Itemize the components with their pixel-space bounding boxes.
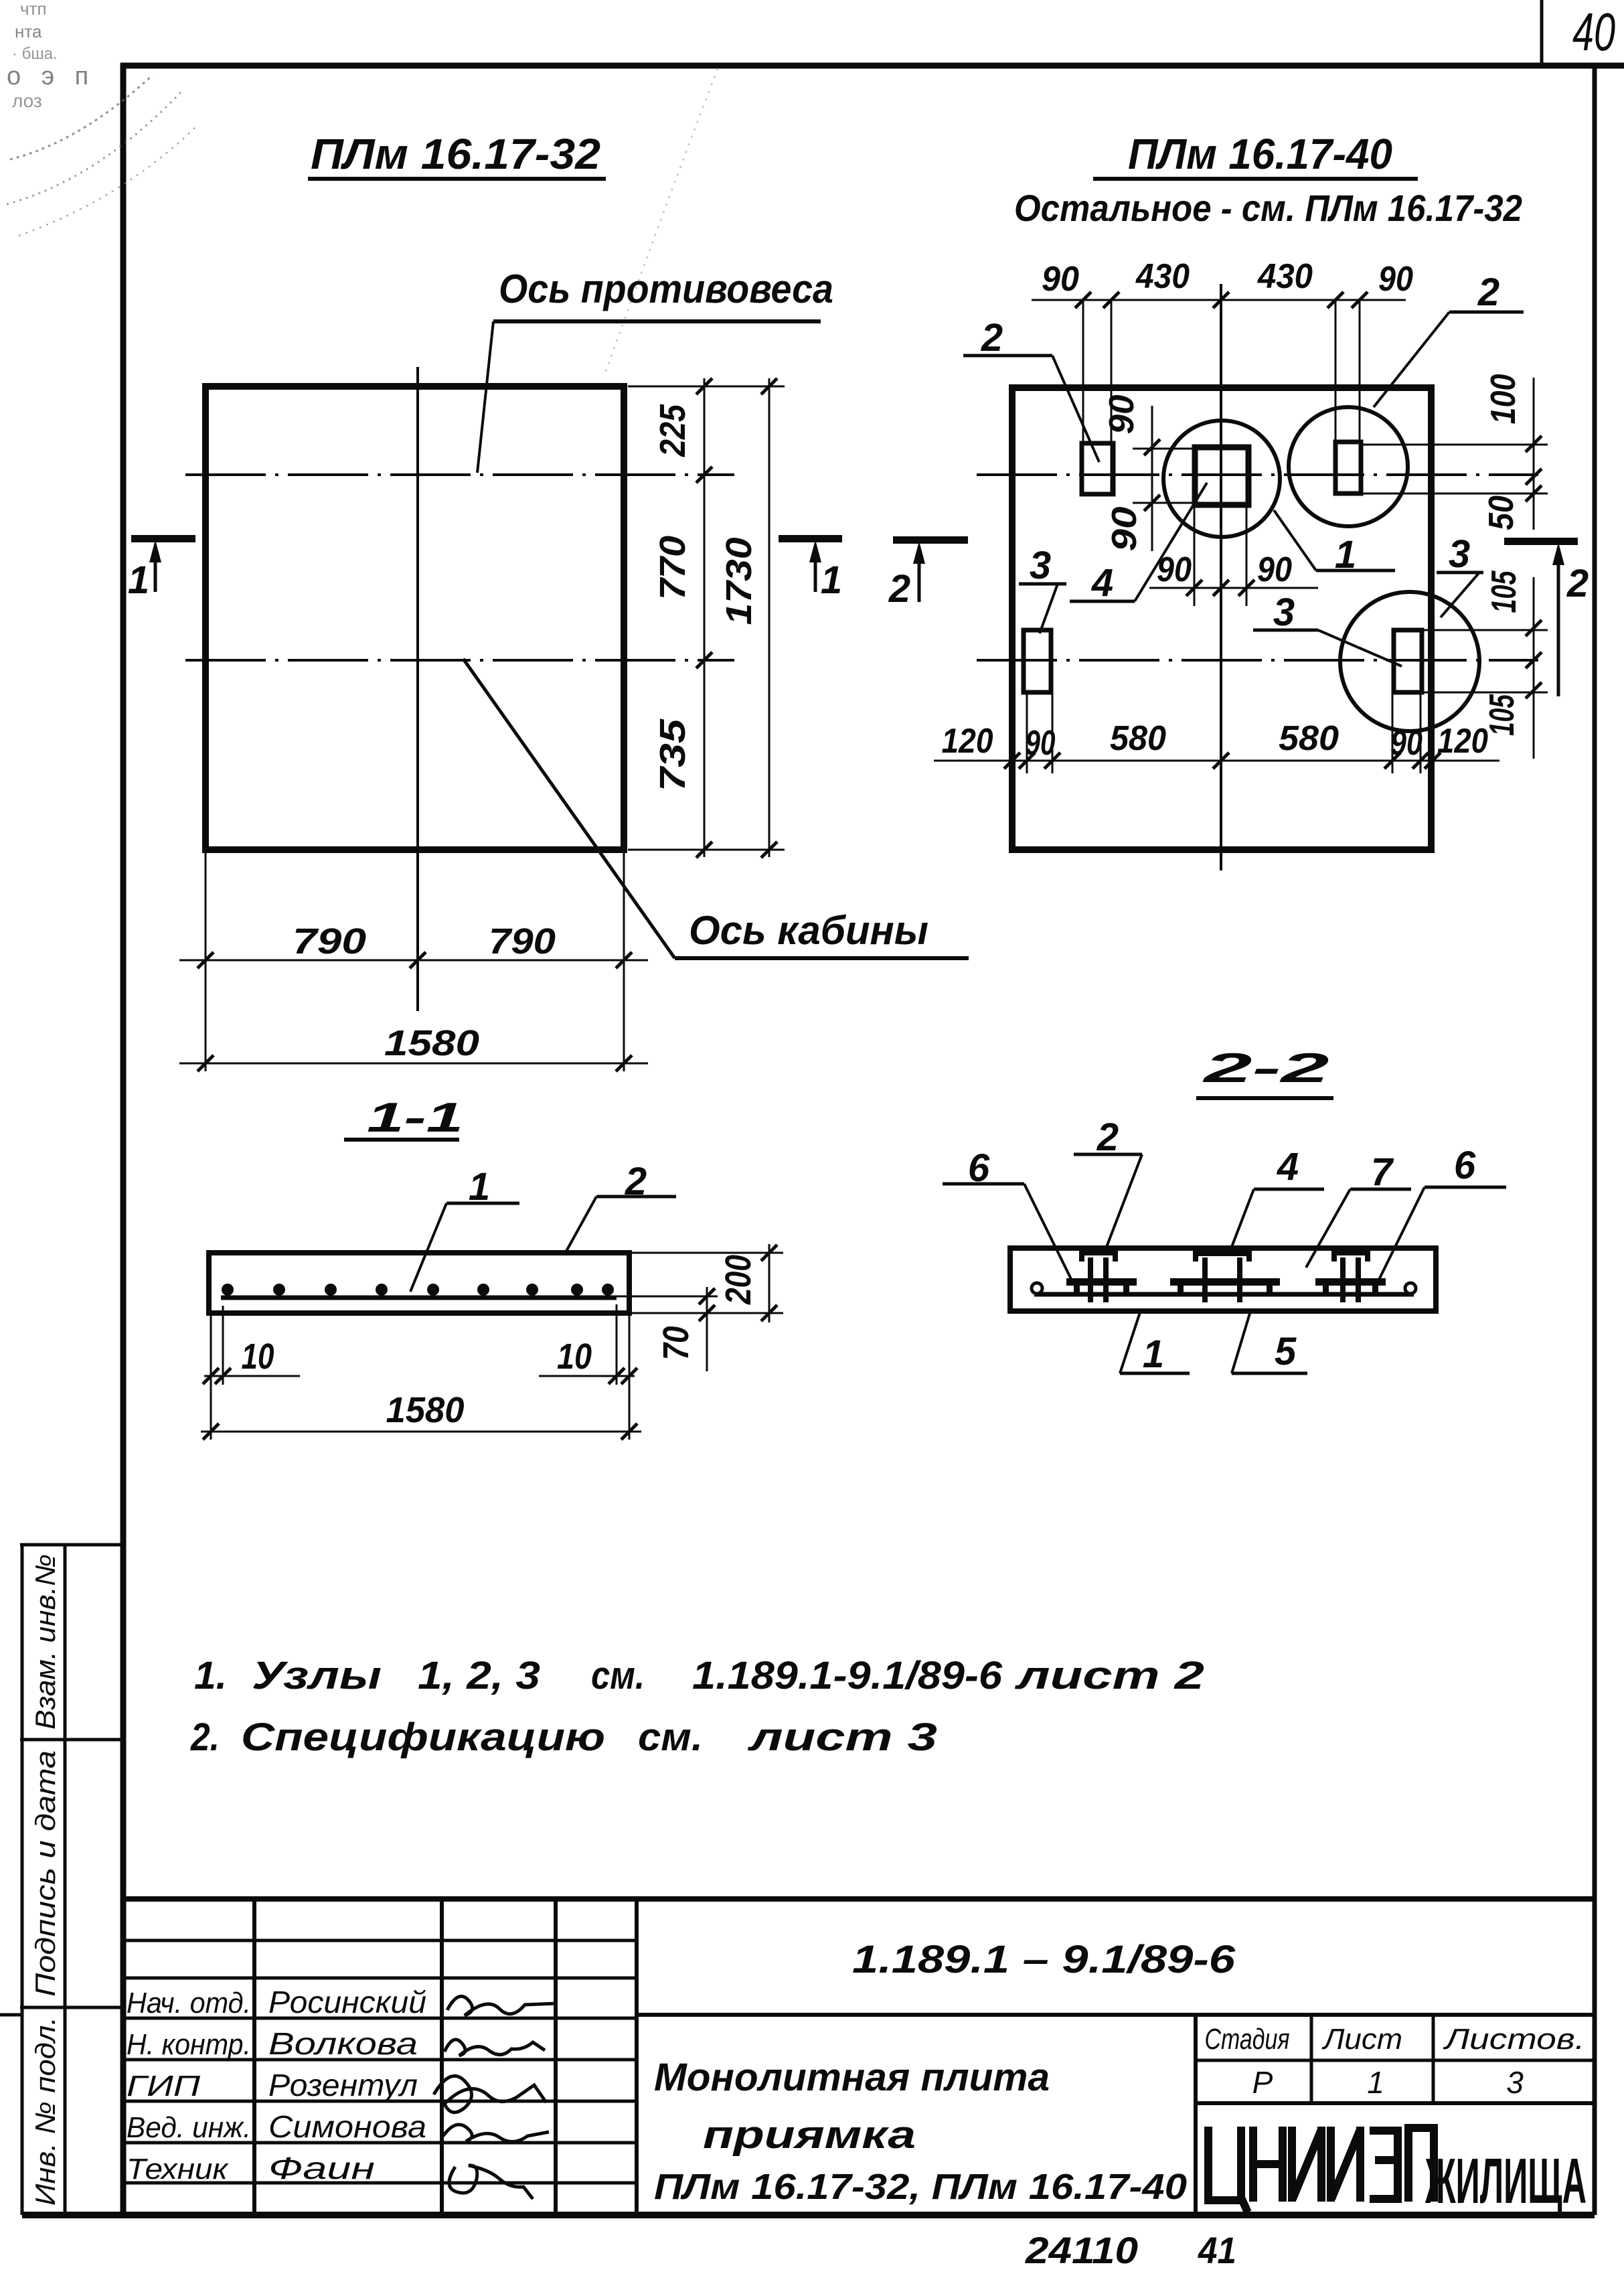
line between Стадия and Лист [1310, 2015, 1313, 2103]
sheet frame bottom border [22, 2212, 1595, 2218]
row line 1 [120, 1939, 637, 1942]
stamp arc 1 [10, 75, 153, 159]
svg-text:225: 225 [653, 404, 693, 457]
svg-text:о э п: о э п [7, 62, 95, 90]
section mark 1 left bar [131, 535, 195, 542]
row line 4 [120, 2058, 637, 2062]
svg-text:Ось противовеса: Ось противовеса [499, 266, 833, 311]
dim line 10 right [539, 1375, 635, 1377]
svg-text:120: 120 [942, 722, 993, 761]
svg-text:ПЛм 16.17-32: ПЛм 16.17-32 [311, 130, 600, 178]
row line 7 [120, 2182, 637, 2185]
signature Росинский [447, 1996, 557, 2015]
ticks 1580 [203, 1424, 219, 1440]
dim line 200 [768, 1244, 770, 1322]
svg-text:4: 4 [1091, 561, 1113, 605]
ticks 70 [699, 1288, 715, 1304]
svg-text:3: 3 [1506, 2065, 1524, 2100]
svg-text:90: 90 [1103, 394, 1141, 434]
svg-text:2: 2 [981, 316, 1003, 360]
svg-text:2: 2 [888, 567, 910, 611]
bottom mesh line [221, 1296, 617, 1300]
tick marks bottom dims [197, 952, 214, 968]
cabin axis line [185, 659, 734, 662]
stage column divider [1194, 2015, 1198, 2215]
svg-text:580: 580 [1110, 719, 1166, 758]
ticks 200 [761, 1245, 777, 1261]
label underline [493, 319, 821, 323]
doc number cell bottom [637, 2013, 1595, 2017]
extension line bottom right [623, 850, 625, 1071]
leader to cabin axis [463, 659, 675, 958]
margin strip section line 2 [20, 2006, 123, 2009]
bottom mesh bar [1034, 1292, 1414, 1297]
section mark 2 right arrow [1557, 553, 1560, 696]
title underline [1093, 177, 1418, 181]
leader to counterweight axis [477, 321, 493, 473]
upper axis line [977, 473, 1538, 476]
svg-text:790: 790 [293, 921, 366, 962]
svg-text:Узлы: Узлы [252, 1654, 382, 1697]
sheet frame left border [120, 63, 127, 2215]
svg-text:лист 3: лист 3 [747, 1715, 937, 1759]
margin strip left border [21, 1545, 24, 2215]
margin strip section line 1 [20, 1738, 123, 1742]
column line dates [554, 1899, 558, 2215]
svg-text:· бша.: · бша. [12, 45, 58, 63]
svg-text:24110: 24110 [1025, 2229, 1138, 2271]
svg-text:Лист: Лист [1321, 2023, 1402, 2056]
svg-text:Фаин: Фаин [268, 2151, 375, 2186]
fold mark line [0, 2013, 22, 2017]
bottom dimension line [934, 760, 1499, 762]
extension line bottom right [628, 849, 785, 851]
svg-text:5: 5 [1275, 1330, 1297, 1373]
svg-text:ЖИЛИЩА: ЖИЛИЩА [1425, 2145, 1587, 2217]
svg-text:см.: см. [591, 1654, 645, 1697]
svg-text:Ось кабины: Ось кабины [689, 908, 928, 953]
title block top border [120, 1896, 1595, 1902]
svg-text:2.: 2. [190, 1715, 220, 1759]
svg-text:200: 200 [718, 1255, 758, 1305]
square bottom extension [1133, 502, 1196, 504]
slab plan outline ПЛм 16.17-40 [1012, 388, 1431, 850]
svg-text:41: 41 [1198, 2229, 1236, 2271]
svg-text:735: 735 [653, 718, 693, 791]
title underline [308, 177, 606, 181]
below-square dimension line [1149, 587, 1318, 589]
section mark 1 left arrow [154, 550, 157, 592]
lower plate center [1170, 1278, 1280, 1292]
extension line top right [628, 386, 785, 388]
svg-text:1-1: 1-1 [367, 1095, 463, 1141]
ticks 10 right [608, 1368, 625, 1384]
svg-text:770: 770 [653, 536, 693, 600]
embedded item 2 top-left [1082, 443, 1113, 494]
svg-text:10: 10 [557, 1336, 592, 1377]
anchor studs left [1088, 1257, 1093, 1302]
ticks bottom dim [1004, 753, 1020, 769]
svg-text:см.: см. [638, 1715, 703, 1759]
svg-text:2: 2 [1477, 271, 1499, 314]
lower plate left [1066, 1278, 1137, 1292]
svg-text:1, 2, 3: 1, 2, 3 [418, 1654, 540, 1697]
dimension line 1580 [179, 1063, 648, 1065]
svg-text:1.189.1-9.1/89-6: 1.189.1-9.1/89-6 [692, 1654, 1003, 1697]
signature Волкова [444, 2040, 545, 2056]
column line names [252, 1899, 256, 2215]
svg-text:10: 10 [242, 1336, 274, 1377]
svg-text:120: 120 [1437, 722, 1488, 761]
mesh hook right [1405, 1283, 1416, 1294]
svg-text:100: 100 [1484, 374, 1523, 424]
dimension line 1730 [768, 378, 770, 857]
ticks 10 left [203, 1368, 219, 1384]
svg-text:Подпись и дата: Подпись и дата [29, 1750, 61, 1997]
embedded item 3 bottom-left [1024, 630, 1051, 692]
embedded item 1 square [1195, 447, 1248, 505]
plan center line [416, 367, 419, 1011]
svg-text:50: 50 [1482, 495, 1521, 530]
svg-text:Инв. № подл.: Инв. № подл. [29, 2017, 61, 2206]
ticks right dim [1526, 436, 1542, 452]
svg-text:Волкова: Волкова [268, 2026, 418, 2061]
svg-text:лоз: лоз [12, 90, 42, 111]
margin strip divider [64, 1545, 67, 2215]
right dim line upper [1533, 378, 1535, 530]
dim line 70 [706, 1287, 708, 1371]
svg-text:Р: Р [1252, 2065, 1273, 2100]
svg-text:1: 1 [1367, 2065, 1384, 2100]
svg-text:90: 90 [1257, 550, 1292, 589]
svg-text:лист 2: лист 2 [1014, 1654, 1204, 1697]
anchor plate center top [1193, 1251, 1252, 1262]
ticks below-square dim [1186, 580, 1202, 596]
svg-text:430: 430 [1135, 257, 1190, 296]
svg-text:90: 90 [1026, 724, 1056, 763]
page number divider line [1540, 0, 1544, 66]
extension right [616, 1304, 618, 1385]
slab section outline [1010, 1248, 1436, 1311]
section mark 1 right arrow [814, 550, 817, 592]
svg-text:90: 90 [1378, 260, 1413, 299]
svg-text:ПЛм 16.17-40: ПЛм 16.17-40 [1128, 130, 1392, 178]
row line 6 [120, 2141, 637, 2145]
svg-text:1.: 1. [194, 1654, 227, 1697]
svg-text:1: 1 [821, 558, 842, 602]
mesh hook left [1032, 1283, 1042, 1294]
svg-text:Остальное - см. ПЛм 16.17-32: Остальное - см. ПЛм 16.17-32 [1014, 187, 1522, 229]
row line 2 [120, 1977, 637, 1980]
signature Симонова [443, 2125, 549, 2142]
svg-text:ГИП: ГИП [127, 2070, 200, 2103]
top dim extension lines [1082, 300, 1084, 494]
svg-text:Листов.: Листов. [1443, 2023, 1585, 2056]
svg-text:Монолитная плита: Монолитная плита [654, 2056, 1050, 2099]
svg-text:Н. контр.: Н. контр. [127, 2028, 251, 2061]
row line 3 [120, 2017, 637, 2020]
detail circle 1 [1163, 421, 1280, 537]
square top extension [1133, 448, 1196, 450]
top dimension line [1032, 299, 1406, 301]
signature Фаин [449, 2165, 533, 2199]
counterweight axis line [185, 473, 734, 476]
section mark 2 left bar [893, 536, 968, 544]
dimension line 225/770/735 [704, 378, 706, 857]
dimension line 790 790 [179, 960, 648, 962]
svg-text:ПЛм 16.17-32, ПЛм 16.17-40: ПЛм 16.17-32, ПЛм 16.17-40 [654, 2167, 1187, 2207]
extension left [210, 1313, 212, 1440]
svg-text:Спецификацию: Спецификацию [241, 1715, 605, 1759]
plan center line [1220, 284, 1222, 870]
svg-text:1.189.1 – 9.1/89-6: 1.189.1 – 9.1/89-6 [852, 1938, 1236, 1981]
svg-text:70: 70 [656, 1326, 696, 1361]
anchor studs center [1202, 1257, 1208, 1302]
logo ЦНИИЭП strokes [1208, 2127, 1434, 2212]
svg-text:40: 40 [1572, 2, 1615, 62]
svg-text:Симонова: Симонова [268, 2109, 426, 2144]
svg-text:Взам. инв.№: Взам. инв.№ [29, 1554, 61, 1730]
svg-text:Росинский: Росинский [268, 1985, 426, 2019]
section mark 1 right bar [779, 535, 842, 542]
column line signatures [440, 1899, 444, 2215]
dim line 10 left [204, 1375, 300, 1377]
square side dim line [1151, 406, 1153, 551]
svg-text:6: 6 [1454, 1144, 1476, 1187]
svg-text:Нач. отд.: Нач. отд. [127, 1987, 251, 2019]
lower plate right [1315, 1278, 1386, 1292]
section mark 2 left arrow [918, 552, 921, 602]
lower axis line [977, 659, 1538, 662]
label underline [675, 956, 969, 960]
tick marks vertical dims [696, 378, 712, 394]
svg-text:Стадия: Стадия [1205, 2023, 1290, 2056]
svg-text:Вед. инж.: Вед. инж. [127, 2111, 251, 2144]
section mark 2 right bar [1504, 538, 1578, 545]
svg-text:приямка: приямка [703, 2113, 916, 2157]
svg-text:105: 105 [1485, 570, 1524, 613]
embedded item 3 bottom-right [1394, 630, 1422, 692]
slab section outline [209, 1253, 629, 1313]
stage values underline [1196, 2101, 1595, 2105]
svg-text:3: 3 [1449, 532, 1470, 576]
margin strip top line [20, 1543, 123, 1547]
right extension rect D top [1423, 629, 1548, 631]
right extension rect D bottom [1423, 692, 1548, 694]
svg-text:4: 4 [1277, 1145, 1299, 1189]
svg-text:Техник: Техник [127, 2153, 229, 2186]
signature Розентул [434, 2076, 546, 2112]
detail circle 3 [1340, 592, 1479, 731]
rebar dots [222, 1284, 614, 1296]
stamp arc 4 diagonal [606, 64, 720, 372]
svg-text:2: 2 [1097, 1116, 1119, 1159]
stamp arc 2 [7, 92, 181, 204]
line between Лист and Листов [1432, 2015, 1435, 2103]
row line 5 [120, 2100, 637, 2103]
anchor plate right top [1331, 1251, 1370, 1262]
stamp arc 3 [19, 127, 195, 236]
svg-text:90: 90 [1042, 260, 1079, 299]
dim line 1580 [201, 1431, 641, 1433]
svg-text:1: 1 [128, 558, 149, 602]
anchor studs right [1340, 1257, 1346, 1302]
sheet frame right border [1593, 66, 1597, 2215]
svg-text:нта: нта [15, 21, 42, 42]
svg-text:1730: 1730 [719, 538, 759, 625]
anchor plate left top [1079, 1251, 1118, 1262]
bottom extension lines [1026, 692, 1028, 773]
embedded item 2 top-right [1335, 442, 1361, 493]
stage header underline [1196, 2059, 1595, 2062]
svg-text:790: 790 [489, 921, 556, 962]
svg-text:2: 2 [1566, 562, 1589, 605]
stamp text fragments [7, 0, 95, 111]
svg-text:чтп: чтп [20, 0, 47, 19]
right extension rect B bottom [1362, 493, 1548, 495]
svg-text:2-2: 2-2 [1202, 1045, 1329, 1091]
ticks square side dim [1144, 439, 1160, 455]
ticks top dim [1075, 292, 1091, 308]
svg-text:105: 105 [1483, 694, 1522, 736]
detail circle 2 [1289, 407, 1408, 526]
right dim line lower [1533, 577, 1535, 759]
svg-text:1580: 1580 [386, 1390, 465, 1430]
svg-text:1580: 1580 [384, 1023, 479, 1063]
svg-text:7: 7 [1371, 1150, 1394, 1194]
extension line bottom left [205, 850, 207, 1071]
sheet frame top border [120, 63, 1624, 69]
svg-text:580: 580 [1279, 719, 1339, 758]
svg-text:90: 90 [1390, 724, 1423, 763]
svg-text:430: 430 [1257, 257, 1313, 296]
column line end of left part [635, 1899, 639, 2215]
slab plan outline ПЛм 16.17-32 [206, 386, 624, 850]
svg-text:3: 3 [1030, 544, 1051, 587]
svg-text:Розентул: Розентул [268, 2068, 418, 2103]
svg-text:1: 1 [1143, 1332, 1164, 1376]
below-square extension lines [1194, 505, 1196, 606]
right extension rect B top [1362, 444, 1548, 446]
svg-text:90: 90 [1105, 506, 1144, 551]
svg-text:3: 3 [1273, 591, 1295, 634]
right extensions [632, 1252, 783, 1254]
